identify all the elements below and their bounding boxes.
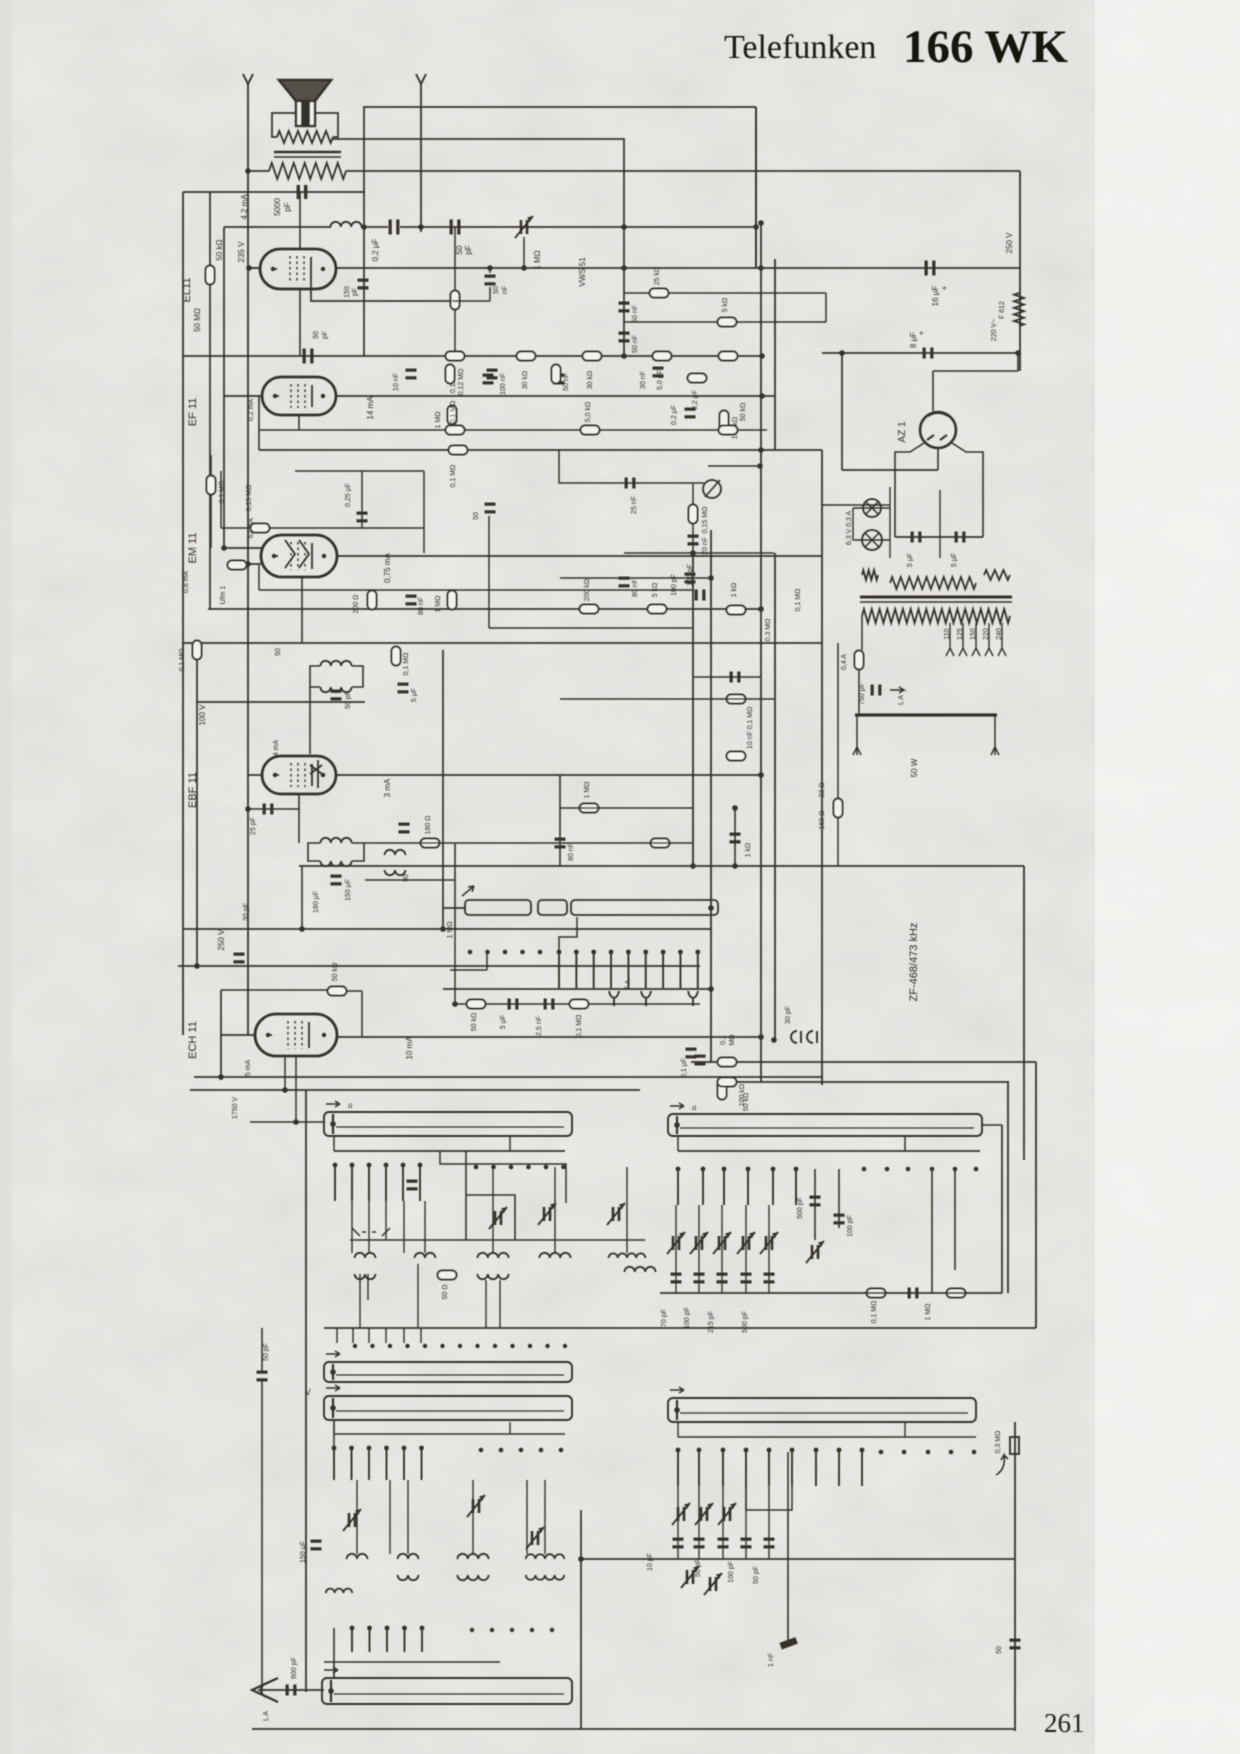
switch contact gang2 left low <box>402 1626 407 1652</box>
switch dot gang2 right <box>902 1450 907 1455</box>
switch contact gang2 right <box>767 1448 772 1486</box>
switch dot gang2 left <box>499 1448 504 1453</box>
switch contact gang2 right <box>790 1448 795 1486</box>
potentiometer section 3 <box>571 900 718 915</box>
switch dot gang1 right <box>862 1167 867 1172</box>
capacitor 50 pF antenna <box>257 1371 268 1382</box>
variable capacitor dashed <box>352 1228 390 1236</box>
wire y=553 <box>624 552 774 554</box>
capacitor 500 pF <box>810 1196 821 1207</box>
trimmer capacitor below line b <box>704 1573 722 1595</box>
svg-text:180 Ω: 180 Ω <box>425 816 432 835</box>
coil L3b <box>477 1274 508 1279</box>
switch dot gang1 right <box>906 1167 911 1172</box>
switch contact gang1 right <box>722 1167 727 1205</box>
junction <box>732 805 738 811</box>
power transformer heater winding a <box>862 570 878 580</box>
resistor 1 MOhm <box>580 804 599 813</box>
switch dot gang2 left <box>479 1448 484 1453</box>
wire IFT1 right leads <box>352 666 363 687</box>
svg-text:100 pF: 100 pF <box>684 1307 691 1329</box>
svg-text:25 kΩ: 25 kΩ <box>654 267 661 285</box>
svg-text:600 pF: 600 pF <box>291 1657 298 1679</box>
capacitor 0,1 uF <box>695 1055 706 1066</box>
wire coil lead d <box>499 1280 501 1328</box>
svg-text:Telefunken: Telefunken <box>724 29 876 66</box>
svg-text:30 kΩ: 30 kΩ <box>522 371 529 389</box>
wire <box>489 268 491 273</box>
wire transformer tap 240 <box>1001 623 1003 648</box>
svg-text:F 612: F 612 <box>999 301 1006 319</box>
svg-text:150 μF: 150 μF <box>300 1541 307 1563</box>
switch contact gang2 left <box>384 1446 389 1480</box>
svg-text:0,1 MΩ: 0,1 MΩ <box>795 589 802 612</box>
wire <box>454 310 456 356</box>
junction <box>1015 350 1021 356</box>
wire y=628 <box>489 627 693 629</box>
connector fork 3 <box>688 991 698 1006</box>
wire tone loop top y=293 <box>624 292 826 294</box>
svg-text:25 pF: 25 pF <box>250 817 257 835</box>
junction <box>245 806 251 812</box>
switch contact gang1 left <box>367 1163 372 1201</box>
speaker magnet pole <box>301 101 310 126</box>
capacitor 16 uF electrolytic <box>925 261 936 276</box>
svg-text:0,2 μF: 0,2 μF <box>692 390 699 410</box>
capacitor padder right <box>741 1273 752 1284</box>
coil L2 <box>415 1253 436 1258</box>
svg-text:50 nF: 50 nF <box>632 305 639 323</box>
resistor 0,1 MOhm <box>727 695 746 704</box>
junction <box>245 168 251 174</box>
wire AVC y=1004 <box>455 1003 700 1005</box>
wire vertical x=822 <box>821 450 823 1085</box>
wire x=300 to tube top <box>299 192 301 249</box>
wire ticks bottom rail y=989 <box>443 988 711 990</box>
wire <box>904 1422 906 1437</box>
switch dot gang1 left <box>544 1165 549 1170</box>
transformer core line 2 <box>274 156 341 158</box>
svg-text:150: 150 <box>970 628 977 640</box>
wire padder column <box>722 1486 724 1559</box>
resistor 0,12 MOhm <box>446 365 455 384</box>
wire long vertical x=306 <box>305 1090 307 1692</box>
resistor 50 kOhm <box>653 352 672 361</box>
svg-text:0,8 mA: 0,8 mA <box>183 571 190 594</box>
svg-text:0,1 MΩ: 0,1 MΩ <box>576 1015 583 1038</box>
wire right edge x=1015 <box>1014 1422 1016 1731</box>
wire <box>361 226 388 228</box>
trimmer capacitor gang2 b <box>467 1495 485 1517</box>
wire gang2 link <box>544 1480 546 1554</box>
wire mains pin 2 <box>994 715 996 755</box>
svg-text:100 pF: 100 pF <box>728 1561 735 1583</box>
wire trimmer column <box>768 1205 770 1293</box>
svg-text:0,1 MΩ: 0,1 MΩ <box>871 1301 878 1324</box>
capacitor 25 nF <box>625 478 636 489</box>
wire y=353 HT <box>822 352 1018 354</box>
capacitor 0,25 uF <box>357 512 368 523</box>
svg-text:ZF-468/473 kHz: ZF-468/473 kHz <box>908 923 920 1002</box>
wire transformer tap 220 <box>988 623 990 648</box>
coil L6 <box>624 1267 655 1272</box>
capacitor 150 pF <box>358 279 369 290</box>
capacitor padder gang2 right <box>741 1538 752 1549</box>
wire <box>1017 353 1019 371</box>
capacitor 0,2 uF <box>685 408 696 419</box>
switch contact gang2 left <box>419 1446 424 1480</box>
wire <box>248 170 269 172</box>
capacitor 600 pF <box>286 1685 297 1696</box>
capacitor 25 pF <box>263 804 274 815</box>
wire transformer tap 125 <box>962 623 964 648</box>
resistor 0,3 MOhm <box>583 352 602 361</box>
switch dot row y=1346 <box>493 1344 497 1348</box>
wire <box>837 818 839 866</box>
switch dot <box>485 950 490 955</box>
switch dot row y=1346 <box>353 1344 357 1348</box>
svg-text:50: 50 <box>493 286 500 294</box>
coil L3 <box>477 1253 508 1258</box>
switch tick below y=1328 <box>352 1328 354 1343</box>
svg-text:ECH 11: ECH 11 <box>187 1021 199 1059</box>
wire y=466 <box>708 465 760 467</box>
svg-text:10 nF: 10 nF <box>393 373 400 391</box>
switch contact tick <box>695 950 700 988</box>
wire y=808 <box>560 807 693 809</box>
resistor 30 kOhm <box>517 352 536 361</box>
switch dot row y=1346 <box>510 1344 514 1348</box>
svg-text:1 kΩ: 1 kΩ <box>731 583 738 598</box>
wire x=221 <box>220 471 222 528</box>
junction <box>299 926 305 932</box>
svg-text:150: 150 <box>344 286 351 298</box>
switch tick below y=1328 <box>403 1328 405 1343</box>
output transformer secondary winding <box>277 131 333 143</box>
svg-text:1 MΩ: 1 MΩ <box>447 922 454 939</box>
wire step to pot gap <box>559 917 577 952</box>
trimmer capacitor T3 <box>607 1203 625 1225</box>
svg-text:0,75 mA: 0,75 mA <box>383 552 392 582</box>
wire gang1 link <box>403 1201 405 1253</box>
capacitor 5 uF <box>398 683 409 694</box>
wire y=590 <box>259 589 693 591</box>
svg-text:200 Ω: 200 Ω <box>353 595 360 614</box>
wire primary left drop <box>861 616 863 650</box>
wire <box>333 1422 335 1434</box>
wire <box>559 775 561 866</box>
capacitor padder right <box>717 1273 728 1284</box>
svg-text:pF: pF <box>322 331 329 339</box>
switch contact gang2 left low <box>385 1626 390 1652</box>
junction <box>771 1037 777 1043</box>
junction <box>246 265 252 271</box>
IF transformer 1 secondary <box>320 687 351 692</box>
wire gang1 link <box>626 1167 628 1253</box>
resistor 1 kOhm <box>228 561 247 570</box>
wire rail y=609 long <box>208 608 761 610</box>
capacitor padder right <box>671 1273 682 1284</box>
svg-text:50 nF: 50 nF <box>632 335 639 353</box>
resistor 0,1 MOhm <box>392 647 401 666</box>
wire AZ1 cathode drop <box>937 447 939 470</box>
wire y=470 <box>842 469 938 471</box>
tap arrowhead <box>972 648 980 656</box>
svg-text:+: + <box>917 330 926 335</box>
wire gang2 link <box>526 1480 528 1554</box>
capacitor 50 nF <box>619 302 630 313</box>
svg-text:10 mA: 10 mA <box>405 1036 414 1060</box>
svg-text:80 nF: 80 nF <box>418 597 425 615</box>
junction <box>194 963 200 969</box>
trimmer capacitor below line a <box>681 1566 699 1588</box>
wire ECH11 anode row y=1037 <box>337 1036 761 1038</box>
wire x=210 long <box>209 285 211 609</box>
resistor 180 Ohm <box>421 839 440 848</box>
svg-text:0,4 A: 0,4 A <box>841 654 848 670</box>
wire <box>210 495 212 548</box>
switch contact gang2 right <box>814 1448 819 1486</box>
wire left bus x=183 <box>182 192 184 1035</box>
junction <box>521 265 527 271</box>
wire ECH11 pin drop <box>284 1056 286 1090</box>
terminal V left <box>243 74 253 84</box>
switch dot gang1 left <box>526 1165 531 1170</box>
trimmer capacitor right row <box>690 1232 708 1254</box>
svg-text:0,1 MΩ: 0,1 MΩ <box>747 707 754 730</box>
svg-text:50 pF: 50 pF <box>695 1559 702 1577</box>
mains pin arrow 1 <box>853 747 861 755</box>
junction <box>758 447 764 453</box>
resistor <box>448 591 457 610</box>
wire bar A2 to right <box>982 1124 1002 1126</box>
junction pot end <box>708 905 714 911</box>
wire x=424 <box>423 471 425 553</box>
resistor 25 kOhm tone <box>650 289 669 298</box>
wire trimmer column <box>675 1205 677 1293</box>
switch tick below y=1328 <box>336 1328 338 1343</box>
wire y=1151 left <box>334 1150 565 1152</box>
switch contact tick <box>678 950 683 988</box>
wire <box>486 952 488 970</box>
svg-text:pF: pF <box>283 202 292 211</box>
wire x=362 <box>361 471 363 528</box>
switch dot gang2 low <box>530 1628 534 1632</box>
svg-text:3 mA: 3 mA <box>383 778 392 797</box>
junction <box>690 550 696 556</box>
wire <box>858 670 860 715</box>
right margin lighter strip <box>1095 0 1240 1754</box>
wire x=364 down <box>363 192 365 356</box>
coil M4 <box>526 1554 564 1559</box>
switch contact gang2 left low <box>367 1626 372 1652</box>
IF transformer 2 primary <box>320 838 351 843</box>
wire EL11 cathode path <box>311 281 452 301</box>
wire x=890 <box>889 487 891 558</box>
resistor 0,1 MOhm <box>207 476 216 495</box>
switch contact gang2 left <box>349 1446 354 1480</box>
wire antenna lead <box>261 1381 263 1692</box>
capacitor 100 pF <box>695 590 706 601</box>
junction <box>293 1119 299 1125</box>
svg-text:1 MΩ: 1 MΩ <box>584 782 591 799</box>
wire y=990 <box>221 989 327 991</box>
svg-text:0,1 μF: 0,1 μF <box>681 1058 688 1078</box>
coil coupling <box>385 850 406 855</box>
wire rail y=929 <box>183 928 711 930</box>
wire EL11 grid to bus <box>248 267 260 269</box>
switch contact gang1 right <box>746 1167 751 1205</box>
svg-text:V: V <box>305 1388 311 1397</box>
capacitor padder right <box>694 1273 705 1284</box>
switch dot row y=1346 <box>458 1344 462 1348</box>
coil M1 <box>347 1554 368 1559</box>
junction <box>578 1556 584 1562</box>
wire rail y=356 <box>183 355 762 357</box>
wire x=815 <box>814 1169 816 1240</box>
resistor 0,1 MOhm <box>570 1000 589 1009</box>
fuse 0,4 A <box>855 651 864 670</box>
trimmer capacitor gang2 right <box>672 1503 690 1525</box>
wire EBF11 anode row y=775 <box>336 774 761 776</box>
capacitor 5 uF <box>955 532 966 543</box>
svg-text:5 kΩ: 5 kΩ <box>652 583 659 598</box>
wire y=880 <box>365 879 455 881</box>
switch contact gang1 left <box>333 1163 338 1201</box>
switch contact gang1 left <box>418 1163 423 1201</box>
wire EM11 row y=556 <box>337 555 822 557</box>
tube ECH11 <box>255 1014 337 1056</box>
wire <box>677 1422 679 1437</box>
svg-text:0,1 MΩ: 0,1 MΩ <box>403 653 410 676</box>
wire x=466 <box>465 1151 467 1240</box>
switch dot gang2 right <box>972 1450 977 1455</box>
capacitor above coupling coil <box>399 823 410 834</box>
resistor 100 kOhm <box>718 1081 727 1100</box>
coil L1b <box>355 1274 376 1279</box>
wire x=221 <box>220 990 222 1080</box>
wire y=1559 <box>581 1558 1015 1560</box>
wire y=699 <box>560 698 774 700</box>
wire <box>258 396 260 450</box>
tap arrowhead <box>985 648 993 656</box>
junction <box>732 863 738 869</box>
wire IFT2 right leads <box>352 843 364 861</box>
wire vertical x=711 <box>710 530 712 1062</box>
switch contact tick <box>557 950 562 988</box>
wire y=843 <box>364 842 693 844</box>
svg-text:180 μF: 180 μF <box>313 891 320 913</box>
switch dot gang2 right <box>926 1450 931 1455</box>
switch dot gang1 right <box>953 1167 958 1172</box>
junction <box>440 926 446 932</box>
svg-text:a: a <box>348 1100 353 1110</box>
svg-text:5 μF: 5 μF <box>951 553 958 567</box>
tube EBF11 <box>262 756 336 794</box>
junction <box>758 220 764 226</box>
wire <box>333 1420 335 1448</box>
wire IFT1 to EBF11 grid <box>309 687 311 754</box>
wire speaker return to HT y=107 <box>364 107 756 192</box>
wire <box>258 565 260 590</box>
switch contact tick <box>591 950 596 988</box>
capacitor solid <box>908 1288 919 1299</box>
switch contact gang2 right <box>721 1448 726 1486</box>
svg-text:80 nF: 80 nF <box>568 843 575 861</box>
svg-text:1 MΩ: 1 MΩ <box>435 412 442 429</box>
capacitor 30 nF below rail <box>554 374 565 385</box>
switch tick below y=1328 <box>420 1328 422 1343</box>
wire AZ1 plate right to loop <box>952 443 983 537</box>
svg-text:50: 50 <box>996 1646 1003 1654</box>
wire y=578 <box>560 577 711 579</box>
wire IFT1 left leads <box>310 666 320 687</box>
trimmer capacitor right row <box>760 1232 778 1254</box>
svg-text:70 pF: 70 pF <box>661 1309 668 1327</box>
svg-text:2,5 nF: 2,5 nF <box>536 1016 543 1036</box>
potentiometer circle <box>703 480 721 498</box>
junction <box>758 265 764 271</box>
band switch bar A2 <box>668 1103 982 1136</box>
resistor 0,15 MOhm <box>689 505 698 524</box>
resistor 0,2 uF <box>688 374 707 383</box>
wire y=505 <box>822 504 890 506</box>
output transformer primary winding <box>269 163 346 179</box>
capacitor 100 nF <box>487 369 498 380</box>
svg-text:5,0 kΩ: 5,0 kΩ <box>585 402 592 422</box>
svg-text:0,1: 0,1 <box>720 1035 727 1045</box>
trimmer capacitor right row <box>667 1232 685 1254</box>
coil M3b <box>457 1575 488 1580</box>
switch dot gang1 left <box>561 1165 566 1170</box>
resistor <box>552 365 561 384</box>
wire coil lead c <box>485 1280 487 1328</box>
svg-text:L A: L A <box>898 695 905 705</box>
svg-text:100 nF: 100 nF <box>500 373 507 395</box>
power transformer heater winding b <box>890 577 976 589</box>
switch dot gang2 low <box>510 1628 514 1632</box>
svg-text:25 nF: 25 nF <box>631 496 638 514</box>
wire cathode extension <box>452 300 490 302</box>
svg-text:235 V: 235 V <box>237 241 246 263</box>
svg-text:1 MΩ: 1 MΩ <box>533 250 542 269</box>
capacitor 50 pF bottom right <box>1010 1639 1021 1650</box>
svg-text:50 MΩ: 50 MΩ <box>193 308 202 332</box>
junction <box>690 863 696 869</box>
resistor 10 nF <box>727 752 746 761</box>
wire EF11 cathode drop <box>298 415 300 430</box>
power transformer primary winding <box>862 609 1010 623</box>
capacitor 30 pF <box>234 953 245 964</box>
switch contact tick <box>643 950 648 988</box>
wire gang2 link <box>356 1480 358 1554</box>
switch tick below y=1328 <box>368 1328 370 1343</box>
wire <box>454 929 456 1004</box>
resistor 150 Ohm cathode <box>451 291 460 310</box>
capacitor padder right <box>764 1273 775 1284</box>
capacitor 50 pF <box>303 349 314 364</box>
wire tone pot drop <box>523 237 525 268</box>
wire trimmer column <box>721 1205 723 1293</box>
wire y=809 <box>248 808 299 810</box>
wire lamp left <box>852 508 854 540</box>
capacitor 100 pF <box>834 1214 845 1225</box>
switch contact tick <box>574 950 579 988</box>
capacitor 150 uF <box>331 875 342 886</box>
switch dot gang2 low <box>470 1628 474 1632</box>
wire grid-leak drop <box>209 192 211 265</box>
band switch bar B2 <box>668 1387 976 1422</box>
